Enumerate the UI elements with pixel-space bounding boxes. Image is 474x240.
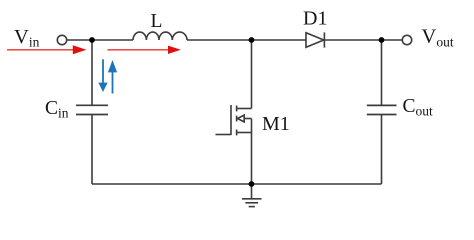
ripple arrow down (98, 59, 107, 92)
ripple arrow up (108, 60, 117, 94)
wire (381, 115, 383, 185)
terminal Vout (402, 35, 411, 44)
svg-text:M1: M1 (262, 113, 290, 135)
wire (187, 39, 306, 41)
capacitor Cin (76, 105, 108, 114)
wire (91, 40, 93, 105)
node ground junction (249, 181, 255, 187)
svg-text:Cout: Cout (403, 96, 434, 118)
wire (91, 115, 93, 185)
node drain junction (249, 37, 255, 43)
wire (251, 40, 253, 109)
diode D1 (306, 33, 324, 48)
ground (242, 184, 262, 207)
node input junction (89, 37, 95, 43)
wire (67, 39, 92, 41)
node output junction (379, 37, 385, 43)
svg-text:L: L (151, 11, 163, 32)
current arrow inductor (108, 46, 181, 54)
svg-text:Cin: Cin (45, 98, 69, 120)
capacitor Cout (367, 105, 397, 114)
wire (382, 39, 403, 41)
svg-text:Vout: Vout (422, 26, 454, 50)
svg-text:Vin: Vin (14, 26, 40, 50)
svg-text:D1: D1 (303, 8, 327, 30)
wire (92, 39, 133, 41)
transistor M1 (216, 105, 252, 135)
current arrow input (7, 45, 86, 54)
wire (381, 40, 383, 105)
inductor L (133, 32, 187, 40)
wire (251, 133, 253, 185)
wire (92, 183, 382, 185)
terminal Vin (57, 35, 66, 44)
wire (324, 39, 381, 41)
